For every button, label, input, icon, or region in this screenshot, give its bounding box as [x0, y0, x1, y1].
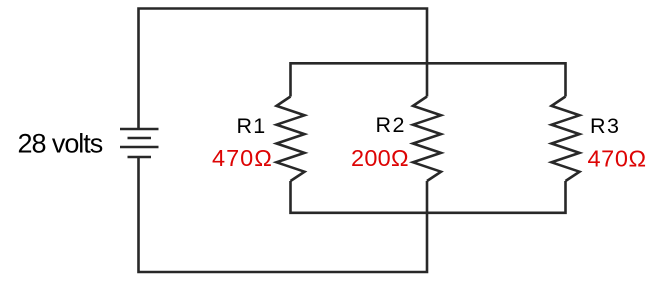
svg-text:R2: R2: [376, 113, 406, 137]
svg-text:470Ω: 470Ω: [588, 145, 647, 171]
svg-text:28 volts: 28 volts: [18, 129, 103, 159]
resistor R2: [413, 97, 441, 182]
svg-text:470Ω: 470Ω: [212, 145, 273, 171]
wire: outer bottom from battery to R2 branch: [139, 157, 428, 272]
wire: inner parallel box bottom (node B): [291, 181, 566, 213]
svg-text:R1: R1: [237, 114, 267, 138]
svg-text:200Ω: 200Ω: [351, 145, 409, 171]
svg-text:R3: R3: [590, 114, 620, 138]
battery 28 volts: [120, 129, 159, 157]
wire: outer top from battery to R2 branch: [139, 9, 428, 130]
resistor R3: [552, 97, 580, 182]
resistor R1: [277, 97, 305, 182]
wire: inner parallel box top (node A): [291, 63, 566, 96]
